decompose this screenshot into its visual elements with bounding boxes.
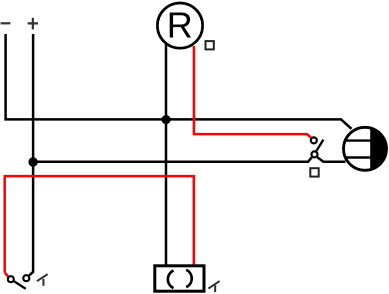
switch lower terminal [312,151,318,157]
right parenthesis in box [186,270,192,287]
motor inner line upper [344,139,371,141]
bottom switch left terminal [8,276,14,282]
answer square below switch [310,168,318,176]
label イ at bottom switch [37,274,48,286]
motor outer circle [344,127,387,170]
component box [155,266,204,291]
wire positive: vertical down to bottom switch [29,34,33,275]
junction dot on top horizontal at lamp wire [162,115,171,124]
bottom switch right terminal [23,275,29,281]
motor chord line [370,128,372,171]
motor filled right segment [371,128,386,169]
left parenthesis in box [168,271,174,289]
svg-text:R: R [167,5,193,46]
junction dot on middle horizontal at plus wire [28,157,37,166]
lamp R circle [157,3,202,48]
label イ at component box [208,281,219,292]
label minus terminal [1,22,11,24]
motor inner line lower [345,156,372,158]
wire from lamp R down to component box [165,44,168,265]
wire negative: left vertical + top horizontal + diagonal to motor [6,34,352,129]
answer square near lamp [206,41,214,49]
red wire from lamp R to switch upper terminal [194,46,311,138]
wire middle horizontal right of switch to motor [317,157,345,162]
wire middle horizontal left of switch [33,157,312,162]
switch upper terminal [311,137,317,143]
label plus terminal [28,18,38,30]
bottom switch lever [14,281,26,288]
red wire lower loop: bottom switch to component box [5,176,194,276]
switch lever [317,140,324,151]
